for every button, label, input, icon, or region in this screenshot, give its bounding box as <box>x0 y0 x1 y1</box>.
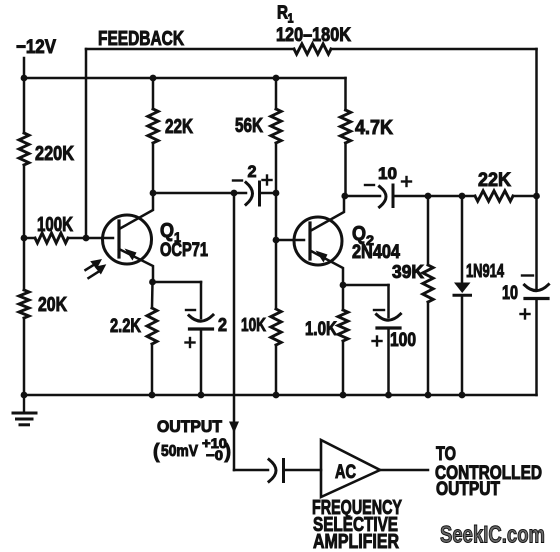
junction 1N914 top <box>459 193 466 200</box>
svg-text:100: 100 <box>390 330 416 351</box>
label output level +10 <box>202 435 227 451</box>
wire ground rail <box>24 394 537 397</box>
label Q1 type OCP71 <box>160 240 208 261</box>
svg-text:50mV: 50mV <box>161 443 198 460</box>
resistor R 20K <box>19 290 29 318</box>
label OUTPUT <box>157 417 223 436</box>
svg-text:AMPLIFIER: AMPLIFIER <box>313 531 399 552</box>
label FEEDBACK <box>98 28 184 50</box>
transistor Q2 circle <box>294 217 342 265</box>
label 1N914 <box>466 261 504 281</box>
label output level paren open <box>153 441 160 463</box>
wire 10K bottom stub <box>275 345 278 395</box>
wire cap100 bottom stub <box>387 328 390 395</box>
label output level paren close <box>225 441 232 463</box>
transistor Q2 emitter arrow PNP <box>316 251 328 263</box>
svg-text:OUTPUT: OUTPUT <box>157 417 223 436</box>
wire 1N914 bottom stub <box>461 295 464 395</box>
junction Q2 emitter node <box>340 282 347 289</box>
wire base node to Q1 base <box>86 237 113 240</box>
wire -12V rail <box>24 77 346 80</box>
label 220K <box>35 143 74 165</box>
svg-text:100K: 100K <box>37 214 73 236</box>
label cap2b minus <box>186 309 195 311</box>
transistor Q2 emitter <box>311 251 343 285</box>
label FREQUENCY <box>312 497 402 519</box>
wire rail corner to 4.7K <box>344 78 347 110</box>
svg-text:1.0K: 1.0K <box>305 319 337 340</box>
label cap10b plus <box>521 310 530 319</box>
label 100K <box>37 214 73 236</box>
wire cap2 to 56K node <box>260 192 277 195</box>
junction Q1 emitter node <box>149 279 156 286</box>
svg-text:56K: 56K <box>235 115 263 137</box>
wire left branch upper <box>23 78 26 133</box>
transistor Q2 collector <box>311 196 344 231</box>
label cap100 minus <box>374 309 384 311</box>
junction -12V at left branch <box>21 75 28 82</box>
label -12V supply <box>16 37 56 58</box>
wire right vertical to cap10b <box>535 196 538 289</box>
capacitor C 10uF output straight plate <box>525 297 548 300</box>
label R1 value 120-180K <box>276 25 351 46</box>
wire 2.2K top stub <box>151 282 154 308</box>
label AMPLIFIER <box>313 531 399 552</box>
wire feedback vertical <box>85 49 88 238</box>
svg-text:Q: Q <box>160 220 174 242</box>
junction Q1 collector 22K <box>150 190 157 197</box>
resistor R 220K <box>19 133 29 165</box>
label output level 50mV <box>161 443 198 460</box>
svg-text:220K: 220K <box>35 143 74 165</box>
resistor R1 zigzag <box>294 44 331 54</box>
capacitor coupling curved plate <box>269 460 276 482</box>
junction gnd 1.0K <box>340 392 347 399</box>
output direction arrow <box>229 422 239 434</box>
junction gnd 10K <box>273 392 280 399</box>
svg-text:2: 2 <box>218 315 227 335</box>
svg-text:1: 1 <box>288 11 294 26</box>
label cap2b value <box>218 315 227 335</box>
capacitor C 2uF interstage straight plate <box>258 182 261 205</box>
resistor R 2.2K <box>147 308 157 344</box>
resistor R 22K first stage <box>148 109 158 143</box>
capacitor C 10uF interstage straight plate <box>392 185 395 207</box>
transistor Q1 emitter <box>119 249 153 282</box>
label cap10 minus <box>365 184 374 186</box>
svg-text:TO: TO <box>436 444 456 465</box>
label 22K first stage <box>165 116 193 138</box>
wire node A horizontal <box>153 192 246 195</box>
svg-text:R: R <box>277 3 288 23</box>
label Q2 type 2N404 <box>352 242 400 263</box>
label 22K output <box>478 170 511 191</box>
svg-text:10K: 10K <box>241 315 266 335</box>
wire 100K right to base node <box>68 237 86 240</box>
label SELECTIVE <box>313 514 398 536</box>
label cap10 plus <box>402 177 411 186</box>
junction gnd cap100 <box>385 392 392 399</box>
label 4.7K <box>355 117 393 139</box>
op-amp AC frequency selective amplifier triangle <box>321 440 380 497</box>
diode D 1N914 cathode bar <box>454 294 471 297</box>
capacitor coupling straight plate <box>282 460 285 482</box>
label cap100 value <box>390 330 416 351</box>
wire output vertical <box>233 193 236 470</box>
svg-text:39K: 39K <box>392 262 424 282</box>
svg-text:1N914: 1N914 <box>466 261 504 281</box>
transistor Q1 collector <box>120 193 153 229</box>
svg-text:2N404: 2N404 <box>352 242 400 263</box>
resistor R 10K <box>271 309 281 345</box>
label AC <box>335 462 356 483</box>
resistor R 100K <box>35 233 68 243</box>
wire coupling cap to amplifier <box>284 469 322 472</box>
wire feedback horizontal left <box>86 48 294 51</box>
resistor R 39K <box>423 265 433 302</box>
wire cap2b bottom stub <box>200 329 203 395</box>
capacitor C 100uF curved plate <box>377 314 401 320</box>
label cap2b plus <box>186 338 195 347</box>
svg-text:FEEDBACK: FEEDBACK <box>98 28 184 50</box>
wire amplifier output <box>380 469 428 472</box>
label cap2 minus <box>233 179 242 181</box>
wire 39K top stub <box>427 196 430 265</box>
wire 2.2K bottom stub <box>151 344 154 395</box>
label 39K <box>392 262 424 282</box>
svg-text:AC: AC <box>335 462 356 483</box>
capacitor C 100uF straight plate <box>377 326 400 329</box>
svg-text:(: ( <box>153 441 160 463</box>
junction -12V at 56K <box>273 75 280 82</box>
junction gnd 39K <box>425 392 432 399</box>
wire node B to cap10 <box>345 195 380 198</box>
svg-text:OUTPUT: OUTPUT <box>436 479 500 500</box>
wire right vertical from R1 <box>535 49 538 196</box>
transistor Q2 base bar <box>308 223 311 259</box>
junction 39K top <box>425 193 432 200</box>
label cap10b value <box>502 283 518 304</box>
wire 22K bottom stub <box>152 143 155 193</box>
ground symbol <box>13 395 36 425</box>
junction 100K left <box>21 235 28 242</box>
label TO <box>436 444 456 465</box>
junction output tap <box>231 190 238 197</box>
wire left branch lower <box>23 318 26 395</box>
junction gnd cap2b <box>198 392 205 399</box>
wire 22K top stub <box>152 78 155 109</box>
wire 4.7K bottom <box>344 143 347 196</box>
resistor R 1.0K <box>338 310 348 341</box>
diode D 1N914 triangle <box>454 283 471 294</box>
junction Q2 collector 4.7K <box>341 193 348 200</box>
svg-text:22K: 22K <box>165 116 193 138</box>
wire 1.0K bottom stub <box>342 341 345 395</box>
wire 56K top stub <box>275 78 278 109</box>
svg-text:2.2K: 2.2K <box>110 316 141 337</box>
svg-text:OCP71: OCP71 <box>160 240 208 261</box>
label R1 ref <box>277 3 294 26</box>
capacitor C 10uF interstage curved plate <box>380 187 387 208</box>
wire emitter node to cap <box>153 281 202 284</box>
wire Q2 emitter node to cap100 <box>343 284 389 287</box>
label 20K <box>38 294 67 316</box>
label OUTPUT right <box>436 479 500 500</box>
resistor R 4.7K <box>340 110 350 143</box>
junction base node feedback <box>83 235 90 242</box>
junction Q2 base <box>273 237 280 244</box>
watermark SeekIC.com <box>440 522 545 549</box>
svg-text:22K: 22K <box>478 170 511 191</box>
junction 56K cap2 Q2base <box>273 190 280 197</box>
junction gnd 1N914 <box>459 392 466 399</box>
junction gnd left <box>21 392 28 399</box>
label CONTROLLED <box>435 463 542 484</box>
label 56K <box>235 115 263 137</box>
wire cap10 to 39K node <box>393 195 475 198</box>
wire 1N914 top stub <box>461 196 464 283</box>
resistor R 56K <box>271 109 281 143</box>
capacitor C 2uF bypass curved plate <box>189 315 213 321</box>
label 1.0K <box>305 319 337 340</box>
svg-text:SeekIC.com: SeekIC.com <box>440 522 545 549</box>
label cap100 plus <box>373 337 382 346</box>
svg-text:4.7K: 4.7K <box>355 117 393 139</box>
label output level -0 <box>206 447 223 463</box>
junction right vertical 22K <box>533 193 540 200</box>
svg-text:120–180K: 120–180K <box>276 25 351 46</box>
wire cap2b top stub <box>200 282 203 318</box>
wire 56K bottom to rail <box>275 143 278 193</box>
svg-text:10: 10 <box>502 283 518 304</box>
wire 56K node down to Q2 base node <box>275 193 278 308</box>
svg-text:−12V: −12V <box>16 37 56 58</box>
transistor Q1 base bar <box>117 221 120 257</box>
wire 39K bottom stub <box>427 302 430 395</box>
label 2.2K <box>110 316 141 337</box>
wire Q2 base <box>276 239 304 242</box>
transistor Q1 emitter arrow PNP <box>125 249 137 261</box>
wire feedback horizontal right <box>331 48 537 51</box>
wire cap100 top stub <box>387 285 390 317</box>
capacitor C 2uF interstage curved plate <box>246 183 253 205</box>
label cap2 plus <box>263 176 272 185</box>
label cap10b minus <box>522 274 533 276</box>
junction -12V at 22K <box>150 75 157 82</box>
label Q2 ref <box>352 223 374 248</box>
svg-text:−0: −0 <box>206 447 223 463</box>
label Q1 ref <box>160 220 181 245</box>
wire 22K to right vertical <box>513 195 537 198</box>
label cap10 value <box>378 164 397 183</box>
label cap2 value <box>248 162 257 181</box>
wire -12V stub <box>23 58 26 78</box>
light arrow 1 into Q1 <box>86 259 103 270</box>
wire 1.0K top stub <box>342 285 345 310</box>
wire cap10b bottom stub <box>535 299 538 396</box>
svg-text:2: 2 <box>248 162 257 181</box>
label 10K <box>241 315 266 335</box>
transistor Q1 circle <box>103 215 152 264</box>
junction gnd 2.2K <box>149 392 156 399</box>
wire output horizontal to coupling cap <box>234 469 268 472</box>
resistor R 22K output zigzag <box>475 191 513 201</box>
svg-text:): ) <box>225 441 232 463</box>
wire left branch middle <box>23 165 26 290</box>
capacitor C 2uF bypass straight plate <box>190 327 213 330</box>
light arrow 2 into Q1 <box>89 264 107 278</box>
wire 100K left stub <box>24 237 35 240</box>
svg-text:20K: 20K <box>38 294 67 316</box>
capacitor C 10uF output curved plate <box>525 285 549 291</box>
svg-text:10: 10 <box>378 164 397 183</box>
